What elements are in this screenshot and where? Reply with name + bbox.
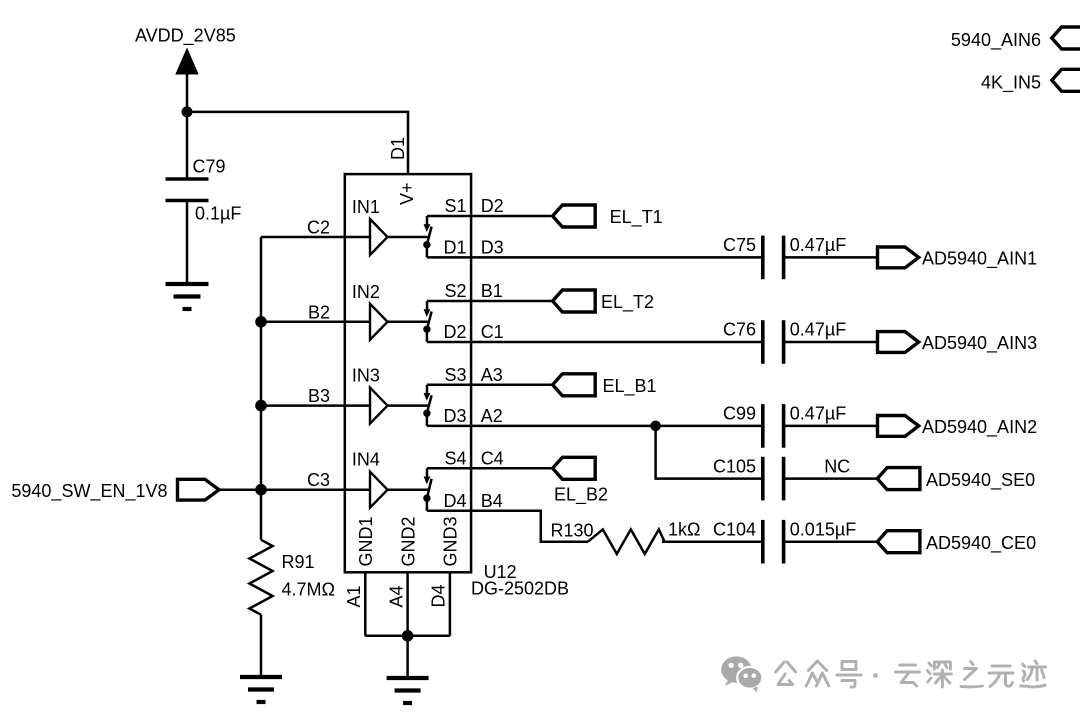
wire gnd bus [365, 635, 450, 638]
wire C75 to AD5940_AIN1 [784, 256, 878, 259]
wire B4 to R130 [427, 511, 588, 542]
wire A2 branch to C105 [656, 426, 763, 479]
svg-text:IN4: IN4 [352, 450, 380, 470]
resistor R130 [551, 520, 701, 555]
connector 5940_AIN6 [1052, 27, 1080, 49]
node C3 junction [255, 484, 267, 496]
wire net D1 to V+ [187, 112, 408, 174]
wire S1 to EL_T1 [427, 215, 553, 218]
svg-text:EL_T1: EL_T1 [610, 207, 663, 228]
svg-text:AVDD_2V85: AVDD_2V85 [135, 26, 236, 47]
wire buffer output ch2 [388, 321, 430, 324]
svg-text:B3: B3 [308, 386, 330, 406]
svg-text:IN3: IN3 [352, 366, 380, 386]
svg-text:D2: D2 [443, 322, 466, 342]
svg-text:D3: D3 [443, 406, 466, 426]
ground under C79 [166, 284, 209, 309]
svg-text:C1: C1 [481, 322, 504, 342]
node A2 junction [650, 421, 661, 432]
connector EL_B1 [553, 374, 596, 396]
svg-text:V+: V+ [397, 182, 417, 205]
svg-text:S1: S1 [444, 196, 466, 216]
connector 4K_IN5 [1052, 69, 1080, 91]
svg-text:EL_B1: EL_B1 [603, 376, 657, 397]
ground under R91 [240, 677, 282, 702]
capacitor C104 [713, 519, 856, 563]
svg-text:C104: C104 [713, 519, 756, 539]
capacitor C105 [713, 456, 850, 500]
capacitor C79 [166, 157, 242, 224]
svg-text:R130: R130 [551, 520, 594, 540]
node gnd junction [402, 630, 414, 642]
refdes U12 DG-2502DB [471, 562, 569, 598]
wire A2 to C99 [427, 425, 763, 428]
wire C105 to AD5940_SE0 [784, 477, 878, 480]
switch ch4 [423, 468, 431, 511]
wire C76 to AD5940_AIN3 [784, 341, 878, 344]
node B3 junction [255, 400, 267, 412]
svg-text:0.47µF: 0.47µF [790, 235, 846, 255]
wire R91 to ground [260, 615, 263, 677]
switch ch3 [423, 385, 431, 426]
switch ch1 [423, 216, 431, 257]
wire input C2 [261, 236, 370, 239]
capacitor C75 [723, 235, 846, 279]
svg-text:A4: A4 [386, 585, 406, 607]
svg-text:5940_AIN6: 5940_AIN6 [951, 30, 1041, 51]
wire C1 to C76 [427, 341, 763, 344]
svg-text:EL_T2: EL_T2 [601, 292, 654, 313]
svg-text:C2: C2 [307, 218, 330, 238]
svg-text:C99: C99 [723, 404, 756, 424]
junction dot power [182, 106, 193, 117]
wire pin A1 [364, 572, 367, 636]
wire to ground [406, 636, 409, 678]
svg-text:IN1: IN1 [352, 197, 380, 217]
wire D3 to C75 [427, 256, 763, 259]
svg-text:A2: A2 [481, 406, 503, 426]
svg-text:A3: A3 [481, 365, 503, 385]
svg-text:AD5940_AIN2: AD5940_AIN2 [922, 417, 1037, 438]
svg-text:A1: A1 [344, 585, 364, 607]
node B2 junction [255, 316, 267, 328]
connector 5940_SW_EN_1V8 [178, 479, 220, 500]
wire power vertical [186, 72, 189, 179]
svg-text:IN2: IN2 [352, 282, 380, 302]
svg-text:D2: D2 [481, 196, 504, 216]
svg-text:GND2: GND2 [398, 516, 418, 566]
connector AD5940_SE0 [877, 468, 920, 490]
wire C104 to AD5940_CE0 [784, 540, 878, 543]
wire left bus [260, 237, 263, 540]
wire S2 to EL_T2 [427, 300, 553, 303]
capacitor C76 [723, 320, 846, 364]
svg-text:1kΩ: 1kΩ [668, 520, 700, 540]
svg-text:4.7MΩ: 4.7MΩ [282, 579, 335, 599]
connector AD5940_AIN2 [878, 416, 919, 437]
svg-text:C105: C105 [713, 456, 756, 476]
buffer IN1 [352, 197, 388, 255]
svg-text:S2: S2 [444, 281, 466, 301]
wire buffer output ch3 [388, 404, 430, 407]
wire buffer output ch4 [388, 488, 430, 491]
svg-text:B4: B4 [481, 491, 503, 511]
wire buffer output ch1 [388, 236, 430, 239]
svg-text:NC: NC [824, 456, 850, 476]
svg-text:B1: B1 [481, 281, 503, 301]
wire input B2 [261, 321, 370, 324]
connector EL_T1 [553, 205, 596, 227]
connector EL_B2 [553, 457, 596, 479]
svg-text:D4: D4 [429, 584, 449, 607]
svg-text:GND3: GND3 [441, 516, 461, 566]
ground under U12 [387, 678, 429, 703]
op IC U12 body [345, 174, 471, 572]
svg-text:S4: S4 [444, 448, 466, 468]
wire SW_EN to bus [219, 488, 261, 491]
watermark wechat icon [721, 656, 762, 692]
svg-text:DG-2502DB: DG-2502DB [471, 578, 569, 598]
wire pin A4 [406, 572, 409, 636]
svg-text:5940_SW_EN_1V8: 5940_SW_EN_1V8 [11, 481, 167, 502]
svg-text:D1: D1 [388, 137, 408, 160]
svg-text:D3: D3 [481, 237, 504, 257]
svg-text:AD5940_CE0: AD5940_CE0 [926, 533, 1036, 554]
svg-text:AD5940_SE0: AD5940_SE0 [926, 470, 1035, 491]
connector AD5940_AIN3 [878, 332, 919, 353]
wire R130 to C104 [662, 540, 763, 543]
wire pin D4 [449, 572, 452, 636]
svg-text:0.47µF: 0.47µF [790, 320, 846, 340]
svg-text:AD5940_AIN1: AD5940_AIN1 [922, 249, 1037, 270]
wire C99 to AD5940_AIN2 [784, 425, 878, 428]
svg-text:0.47µF: 0.47µF [790, 404, 846, 424]
svg-text:R91: R91 [282, 552, 315, 572]
wire S3 to EL_B1 [427, 384, 553, 387]
wire input B3 [261, 404, 370, 407]
switch ch2 [423, 301, 431, 342]
wire S4 to EL_B2 [427, 467, 553, 470]
svg-text:C75: C75 [723, 235, 756, 255]
svg-text:C4: C4 [481, 448, 504, 468]
svg-text:0.1µF: 0.1µF [195, 204, 241, 224]
resistor R91 [249, 540, 335, 615]
capacitor C99 [723, 404, 846, 448]
power flag AVDD_2V85 [135, 26, 236, 75]
svg-text:EL_B2: EL_B2 [554, 485, 608, 506]
svg-text:AD5940_AIN3: AD5940_AIN3 [922, 333, 1037, 354]
connector AD5940_CE0 [877, 531, 920, 553]
connector AD5940_AIN1 [878, 247, 919, 268]
svg-text:4K_IN5: 4K_IN5 [981, 73, 1041, 94]
svg-text:0.015µF: 0.015µF [790, 519, 856, 539]
watermark text gongzhonghao yunshenzhiwuji [776, 661, 1046, 687]
svg-text:S3: S3 [444, 365, 466, 385]
svg-text:C76: C76 [723, 320, 756, 340]
wire C79 to ground [186, 201, 189, 285]
buffer IN2 [352, 282, 388, 340]
buffer IN3 [352, 366, 388, 424]
svg-text:B2: B2 [308, 302, 330, 322]
connector EL_T2 [553, 290, 596, 312]
svg-text:GND1: GND1 [356, 516, 376, 566]
buffer IN4 [352, 450, 388, 508]
wire input C3 [261, 488, 370, 491]
svg-text:D4: D4 [443, 491, 466, 511]
svg-text:C3: C3 [307, 470, 330, 490]
svg-text:C79: C79 [193, 157, 226, 177]
svg-text:D1: D1 [443, 237, 466, 257]
